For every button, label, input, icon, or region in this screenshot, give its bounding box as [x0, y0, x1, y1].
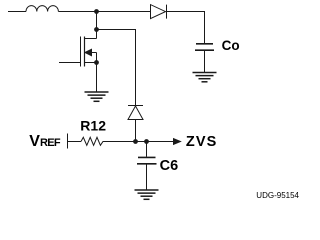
wire node to right branch	[97, 30, 136, 106]
transistor Q1 MOSFET	[59, 37, 97, 67]
wire drain branch vertical	[96, 12, 98, 39]
wire C6 branch	[146, 142, 148, 157]
wire source to ground	[96, 63, 98, 92]
capacitor C6	[137, 157, 157, 163]
wire node row	[104, 141, 174, 143]
wire diode to node	[135, 120, 137, 142]
node junction mid	[95, 28, 99, 32]
svg-text:C6: C6	[160, 158, 179, 174]
svg-text:R12: R12	[80, 118, 106, 134]
node junction C6	[145, 140, 149, 144]
inductor L1	[26, 6, 58, 12]
diode D2 (clamp, cathode up)	[128, 106, 143, 120]
ground (C6)	[135, 190, 159, 199]
node junction diode	[134, 140, 138, 144]
svg-text:UDG-95154: UDG-95154	[256, 191, 299, 200]
svg-text:VREF: VREF	[29, 133, 61, 150]
arrowhead ZVS	[174, 139, 181, 145]
wire top-left	[8, 11, 26, 13]
svg-text:ZVS: ZVS	[186, 134, 218, 150]
diode D1 top	[151, 5, 167, 19]
wire diode to Co corner	[167, 12, 205, 44]
wire inductor to diode anode	[58, 11, 150, 13]
svg-text:Co: Co	[222, 38, 240, 53]
wire Co to ground	[204, 51, 206, 72]
resistor R12	[68, 134, 105, 149]
node junction source	[95, 61, 99, 65]
ground (Co)	[193, 73, 217, 82]
ground (Q1 source)	[85, 92, 109, 101]
wire C6 to ground	[146, 164, 148, 189]
capacitor Co	[195, 44, 214, 50]
node junction top	[95, 10, 99, 14]
